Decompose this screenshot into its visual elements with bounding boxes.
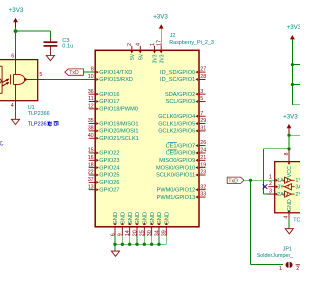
- svg-text:15: 15: [88, 148, 94, 154]
- svg-text:Raspberry_Pi_2_3: Raspberry_Pi_2_3: [169, 40, 214, 46]
- svg-text:+3V3: +3V3: [9, 7, 24, 14]
- U1 internal rail: [15, 60, 17, 75]
- svg-text:GND: GND: [287, 199, 293, 211]
- wire TxD to U2 pin 1: [244, 179, 275, 181]
- svg-text:3V3: 3V3: [159, 54, 165, 63]
- J2 pin 32 (PWM0/GPIO12): [157, 184, 207, 193]
- svg-text:2: 2: [269, 181, 272, 187]
- junction on GND bus: [143, 243, 146, 246]
- ground symbol below J2: [111, 251, 119, 256]
- optical coupling arrows: [2, 79, 9, 86]
- svg-text:ID_SD/GPIO0: ID_SD/GPIO0: [160, 70, 195, 76]
- svg-text:6: 6: [110, 233, 116, 236]
- wire +3V3 to U2 VCC: [288, 134, 290, 149]
- U2 pin 4 GND: [283, 199, 293, 218]
- svg-text:3A: 3A: [295, 184, 300, 190]
- GND bus wire under J2: [115, 236, 166, 245]
- wire U1 GND to ground: [15, 109, 17, 120]
- svg-text:3V3: 3V3: [153, 54, 159, 63]
- J2 pin 10 (GPIO15/RXD): [88, 74, 133, 83]
- junction TxD node: [249, 179, 252, 182]
- J2 pin 28 (ID_SC/GPIO1): [160, 74, 206, 83]
- J2 pin 31 (GCLK2/GPIO6): [158, 126, 206, 135]
- J2 pin 11 (GPIO17): [88, 96, 119, 105]
- ground symbol below U2: [285, 229, 293, 234]
- svg-text:J2: J2: [170, 33, 176, 39]
- junction +3V3 / C3 branch: [14, 29, 18, 33]
- J2 pin 19 (MOSI0/GPIO10): [156, 162, 206, 171]
- svg-text:GCLK2/GPIO6: GCLK2/GPIO6: [158, 129, 195, 135]
- svg-text:TxD: TxD: [228, 178, 238, 184]
- no-connect X at 3Y: [263, 184, 268, 189]
- J2 pin 12 (GPIO18/PWM0): [88, 103, 138, 112]
- svg-text:33: 33: [200, 192, 206, 198]
- svg-text:+3V3: +3V3: [283, 114, 298, 121]
- svg-text:22: 22: [88, 170, 94, 176]
- U2 pin 3 (2A): [268, 189, 284, 198]
- J2 pin 15 (GPIO22): [88, 148, 120, 157]
- svg-text:30: 30: [147, 230, 153, 236]
- svg-text:2A: 2A: [277, 192, 284, 198]
- J2 pin 21 (MISO0/GPIO9): [159, 155, 206, 164]
- junction on GND bus: [157, 243, 160, 246]
- svg-text:SCL/GPIO3: SCL/GPIO3: [166, 99, 196, 105]
- svg-text:1: 1: [269, 175, 272, 181]
- U1 LED fragment: [0, 78, 2, 85]
- svg-text:5V: 5V: [130, 53, 136, 60]
- svg-text:CE1/GPIO7: CE1/GPIO7: [166, 143, 196, 149]
- svg-text:GND: GND: [157, 212, 163, 225]
- junction VCC branch right: [287, 134, 290, 137]
- U2 pin 2 (3Y): [268, 181, 284, 190]
- svg-text:GPIO24: GPIO24: [99, 165, 119, 171]
- J2 pin 38 (GPIO20/MOSI1): [88, 126, 139, 135]
- U2 buffer triangle 1: [283, 177, 295, 183]
- wire branch to right edge: [289, 134, 303, 136]
- svg-text:GPIO19/MISO1: GPIO19/MISO1: [99, 121, 138, 127]
- wire stub lower: [292, 84, 303, 86]
- svg-text:6: 6: [11, 53, 14, 59]
- junction right rail upper: [291, 63, 294, 66]
- svg-text:+3V3: +3V3: [153, 14, 168, 21]
- svg-text:GPIO16: GPIO16: [99, 92, 119, 98]
- svg-text:10: 10: [88, 74, 94, 80]
- J2 pin 40 (GPIO21/SCLK1): [88, 133, 139, 142]
- svg-text:SCLK0/GPIO11: SCLK0/GPIO11: [156, 173, 195, 179]
- J2 pin 34 (GND bottom): [154, 212, 163, 236]
- svg-text:TC7: TC7: [293, 217, 300, 223]
- J2 pin 25 (GND bottom): [140, 212, 149, 236]
- svg-text:28: 28: [200, 74, 206, 80]
- junction on GND bus: [150, 243, 153, 246]
- svg-text:40: 40: [88, 133, 94, 139]
- svg-text:4: 4: [136, 43, 142, 46]
- J2 pin 2 (5V top): [127, 43, 136, 60]
- svg-text:35: 35: [88, 118, 94, 124]
- svg-text:12: 12: [88, 103, 94, 109]
- J2 pin 23 (SCLK0/GPIO11): [156, 170, 206, 179]
- J2 pin 16 (GPIO23): [88, 155, 120, 164]
- svg-text:29: 29: [200, 118, 206, 124]
- J2 pin 20 (GND bottom): [132, 212, 141, 236]
- svg-text:1: 1: [279, 266, 282, 272]
- J2 pin 18 (GPIO24): [88, 162, 120, 171]
- J2 pin 24 (CE0/GPIO8): [166, 148, 207, 157]
- U1 output node dot: [24, 78, 27, 81]
- U2 buffer triangle 3: [283, 191, 295, 197]
- svg-text:31: 31: [200, 126, 206, 132]
- svg-text:1A: 1A: [277, 178, 284, 184]
- junction on GND bus: [121, 243, 124, 246]
- connector J2 body: [95, 50, 199, 227]
- svg-text:14: 14: [125, 230, 131, 236]
- junction right rail lower: [291, 83, 294, 86]
- wire +3V3 down right rail: [291, 40, 293, 105]
- svg-text:GPIO20/MOSI1: GPIO20/MOSI1: [99, 129, 138, 135]
- svg-text:11: 11: [88, 96, 94, 102]
- J2 pin 36 (GPIO16): [88, 89, 120, 98]
- svg-text:8: 8: [91, 67, 94, 73]
- svg-text:25: 25: [140, 230, 146, 236]
- U1 pin 6 VCC top: [11, 53, 15, 59]
- wire TxD label to J2 pin 8: [83, 71, 95, 73]
- svg-text:GND: GND: [150, 212, 156, 225]
- U1 detector gate: [11, 74, 25, 84]
- svg-text:GPIO15/RXD: GPIO15/RXD: [99, 77, 133, 83]
- J2 pin 3 (SDA/GPIO2): [165, 89, 205, 98]
- U1 pin 5 output: [25, 72, 44, 80]
- J2 pin 35 (GPIO19/MISO1): [88, 118, 139, 127]
- wire junction to C3: [16, 30, 51, 32]
- U2 pin 8 VCC: [284, 149, 293, 178]
- svg-text:MISO0/GPIO9: MISO0/GPIO9: [159, 158, 195, 164]
- svg-text:GPIO23: GPIO23: [99, 158, 119, 164]
- svg-text:7: 7: [200, 111, 203, 117]
- svg-text:3: 3: [200, 89, 203, 95]
- svg-text:GPIO21/SCLK1: GPIO21/SCLK1: [99, 136, 139, 142]
- svg-text:GPIO14/TXD: GPIO14/TXD: [99, 70, 132, 76]
- J2 pin 1 (3V3 top): [150, 43, 159, 63]
- svg-text:17: 17: [157, 40, 163, 46]
- svg-text:24: 24: [200, 148, 206, 154]
- wire to JP1 pad: [251, 264, 284, 266]
- wire GND bus to ground: [114, 244, 116, 251]
- svg-text:37: 37: [88, 177, 94, 183]
- svg-text:SDA/GPIO2: SDA/GPIO2: [165, 92, 195, 98]
- wire VCC branch to 2A pin: [264, 148, 290, 150]
- junction on GND bus: [128, 243, 131, 246]
- ground symbol below U1: [11, 119, 19, 124]
- svg-text:GCLK1/GPIO5: GCLK1/GPIO5: [158, 121, 195, 127]
- svg-text:TxD: TxD: [69, 70, 79, 76]
- J2 pin 13 (GPIO27): [88, 184, 120, 193]
- svg-text:5V: 5V: [138, 53, 144, 60]
- J2 pin 7 (GCLK0/GPIO4): [158, 111, 205, 120]
- wire U1 pin5 to J2 pin 10: [44, 78, 95, 80]
- junction on GND bus: [113, 243, 116, 246]
- svg-text:36: 36: [88, 89, 94, 95]
- J2 pin 39 (GND bottom): [162, 212, 171, 236]
- svg-text:GPIO25: GPIO25: [99, 173, 119, 179]
- svg-text:2Y: 2Y: [295, 192, 300, 198]
- ground symbol below C3: [46, 56, 54, 61]
- J2 pin 17 (3V3 top): [157, 40, 166, 63]
- svg-text:GND: GND: [113, 212, 119, 225]
- J2 pin 30 (GND bottom): [147, 212, 156, 236]
- J2 pin 26 (CE1/GPIO7): [166, 140, 207, 149]
- svg-text:GPIO17: GPIO17: [99, 99, 119, 105]
- svg-text:32: 32: [200, 184, 206, 190]
- J2 pin 27 (ID_SD/GPIO0): [160, 67, 206, 76]
- svg-text:TLP2361: TLP2361: [28, 122, 50, 128]
- power symbol +3V3 (above U2): [283, 114, 298, 134]
- clipped blue glyph at left edge: [0, 141, 3, 145]
- U2 buffer triangle 2 (left): [283, 184, 295, 190]
- svg-text:GND: GND: [165, 212, 171, 225]
- optocoupler U1 body: [0, 60, 38, 101]
- svg-text:TLP2366: TLP2366: [28, 111, 50, 117]
- svg-text:0.1u: 0.1u: [62, 43, 73, 49]
- svg-text:SolderJumper_: SolderJumper_: [257, 253, 295, 259]
- global label TxD (left): [65, 69, 84, 76]
- svg-text:3: 3: [269, 189, 272, 195]
- buffer U2 body: [275, 162, 303, 213]
- svg-text:34: 34: [154, 230, 160, 236]
- J2 pin 6 (GND bottom): [110, 212, 119, 236]
- svg-text:2: 2: [296, 266, 299, 272]
- svg-text:ID_SC/GPIO1: ID_SC/GPIO1: [160, 77, 195, 83]
- wire stub upper: [292, 64, 303, 66]
- J2 pin 22 (GPIO25): [88, 170, 120, 179]
- svg-text:38: 38: [88, 126, 94, 132]
- svg-text:GPIO26: GPIO26: [99, 180, 119, 186]
- svg-text:MOSI0/GPIO10: MOSI0/GPIO10: [156, 165, 195, 171]
- svg-text:GCLK0/GPIO4: GCLK0/GPIO4: [158, 114, 195, 120]
- svg-text:GPIO27: GPIO27: [99, 187, 119, 193]
- capacitor C3: [44, 38, 58, 56]
- note TLP2361 mo-ka: [28, 121, 59, 127]
- svg-text:GND: GND: [143, 212, 149, 225]
- wire +3V3 down to U1 VCC: [15, 27, 17, 54]
- U1 LED compartment: [1, 66, 3, 93]
- svg-text:GND: GND: [128, 212, 134, 225]
- svg-text:VCC: VCC: [287, 166, 293, 177]
- J2 pin 5 (SCL/GPIO3): [166, 96, 206, 105]
- junction on GND bus: [135, 243, 138, 246]
- svg-text:8: 8: [284, 153, 290, 156]
- svg-text:39: 39: [162, 230, 168, 236]
- svg-text:1Y: 1Y: [295, 178, 300, 184]
- svg-text:GPIO22: GPIO22: [99, 151, 119, 157]
- svg-text:23: 23: [200, 170, 206, 176]
- svg-text:4: 4: [283, 216, 289, 219]
- wire +3V3 to J2 pin 17: [160, 29, 162, 46]
- svg-text:5: 5: [200, 96, 203, 102]
- svg-text:26: 26: [200, 140, 206, 146]
- svg-text:9: 9: [118, 233, 124, 236]
- svg-text:2: 2: [127, 43, 133, 46]
- wire TxD node down to JP1: [250, 180, 252, 264]
- svg-text:GPIO18/PWM0: GPIO18/PWM0: [99, 107, 138, 113]
- svg-text:GND: GND: [121, 212, 127, 225]
- J2 pin 8 (GPIO14/TXD): [91, 67, 133, 76]
- svg-text:PWM1/GPIO13: PWM1/GPIO13: [157, 195, 196, 201]
- svg-text:CE0/GPIO8: CE0/GPIO8: [166, 151, 196, 157]
- svg-text:19: 19: [200, 162, 206, 168]
- wire U2 GND to ground: [288, 218, 290, 228]
- junction at U2 VCC pin: [287, 147, 290, 150]
- global label TxD (right): [227, 177, 244, 184]
- power symbol +3V3 (top right): [287, 24, 302, 40]
- svg-text:27: 27: [200, 67, 206, 73]
- svg-text:1: 1: [150, 43, 156, 46]
- power symbol +3V3 (top left): [9, 7, 24, 27]
- U1 pin 4 GND bottom: [11, 101, 16, 109]
- svg-text:21: 21: [200, 155, 206, 161]
- svg-text:16: 16: [88, 155, 94, 161]
- svg-text:20: 20: [132, 230, 138, 236]
- J2 pin 29 (GCLK1/GPIO5): [158, 118, 206, 127]
- J2 pin 9 (GND bottom): [118, 212, 127, 236]
- J2 pin 33 (PWM1/GPIO13): [157, 192, 207, 201]
- svg-text:5: 5: [39, 72, 42, 78]
- svg-text:4: 4: [11, 103, 14, 109]
- svg-text:+3V3: +3V3: [287, 24, 300, 31]
- power symbol +3V3 (above J2): [153, 14, 168, 29]
- svg-text:GND: GND: [135, 212, 141, 225]
- solder jumper JP1 symbol: [279, 262, 303, 272]
- J2 pin 4 (5V top): [136, 43, 145, 60]
- svg-text:13: 13: [88, 184, 94, 190]
- U2 pin 1 (1A): [269, 175, 284, 184]
- J2 pin 14 (GND bottom): [125, 212, 134, 236]
- svg-text:PWM0/GPIO12: PWM0/GPIO12: [157, 187, 196, 193]
- svg-text:JP1: JP1: [283, 246, 292, 252]
- svg-text:3Y: 3Y: [277, 184, 284, 190]
- svg-text:18: 18: [88, 162, 94, 168]
- J2 pin 37 (GPIO26): [88, 177, 120, 186]
